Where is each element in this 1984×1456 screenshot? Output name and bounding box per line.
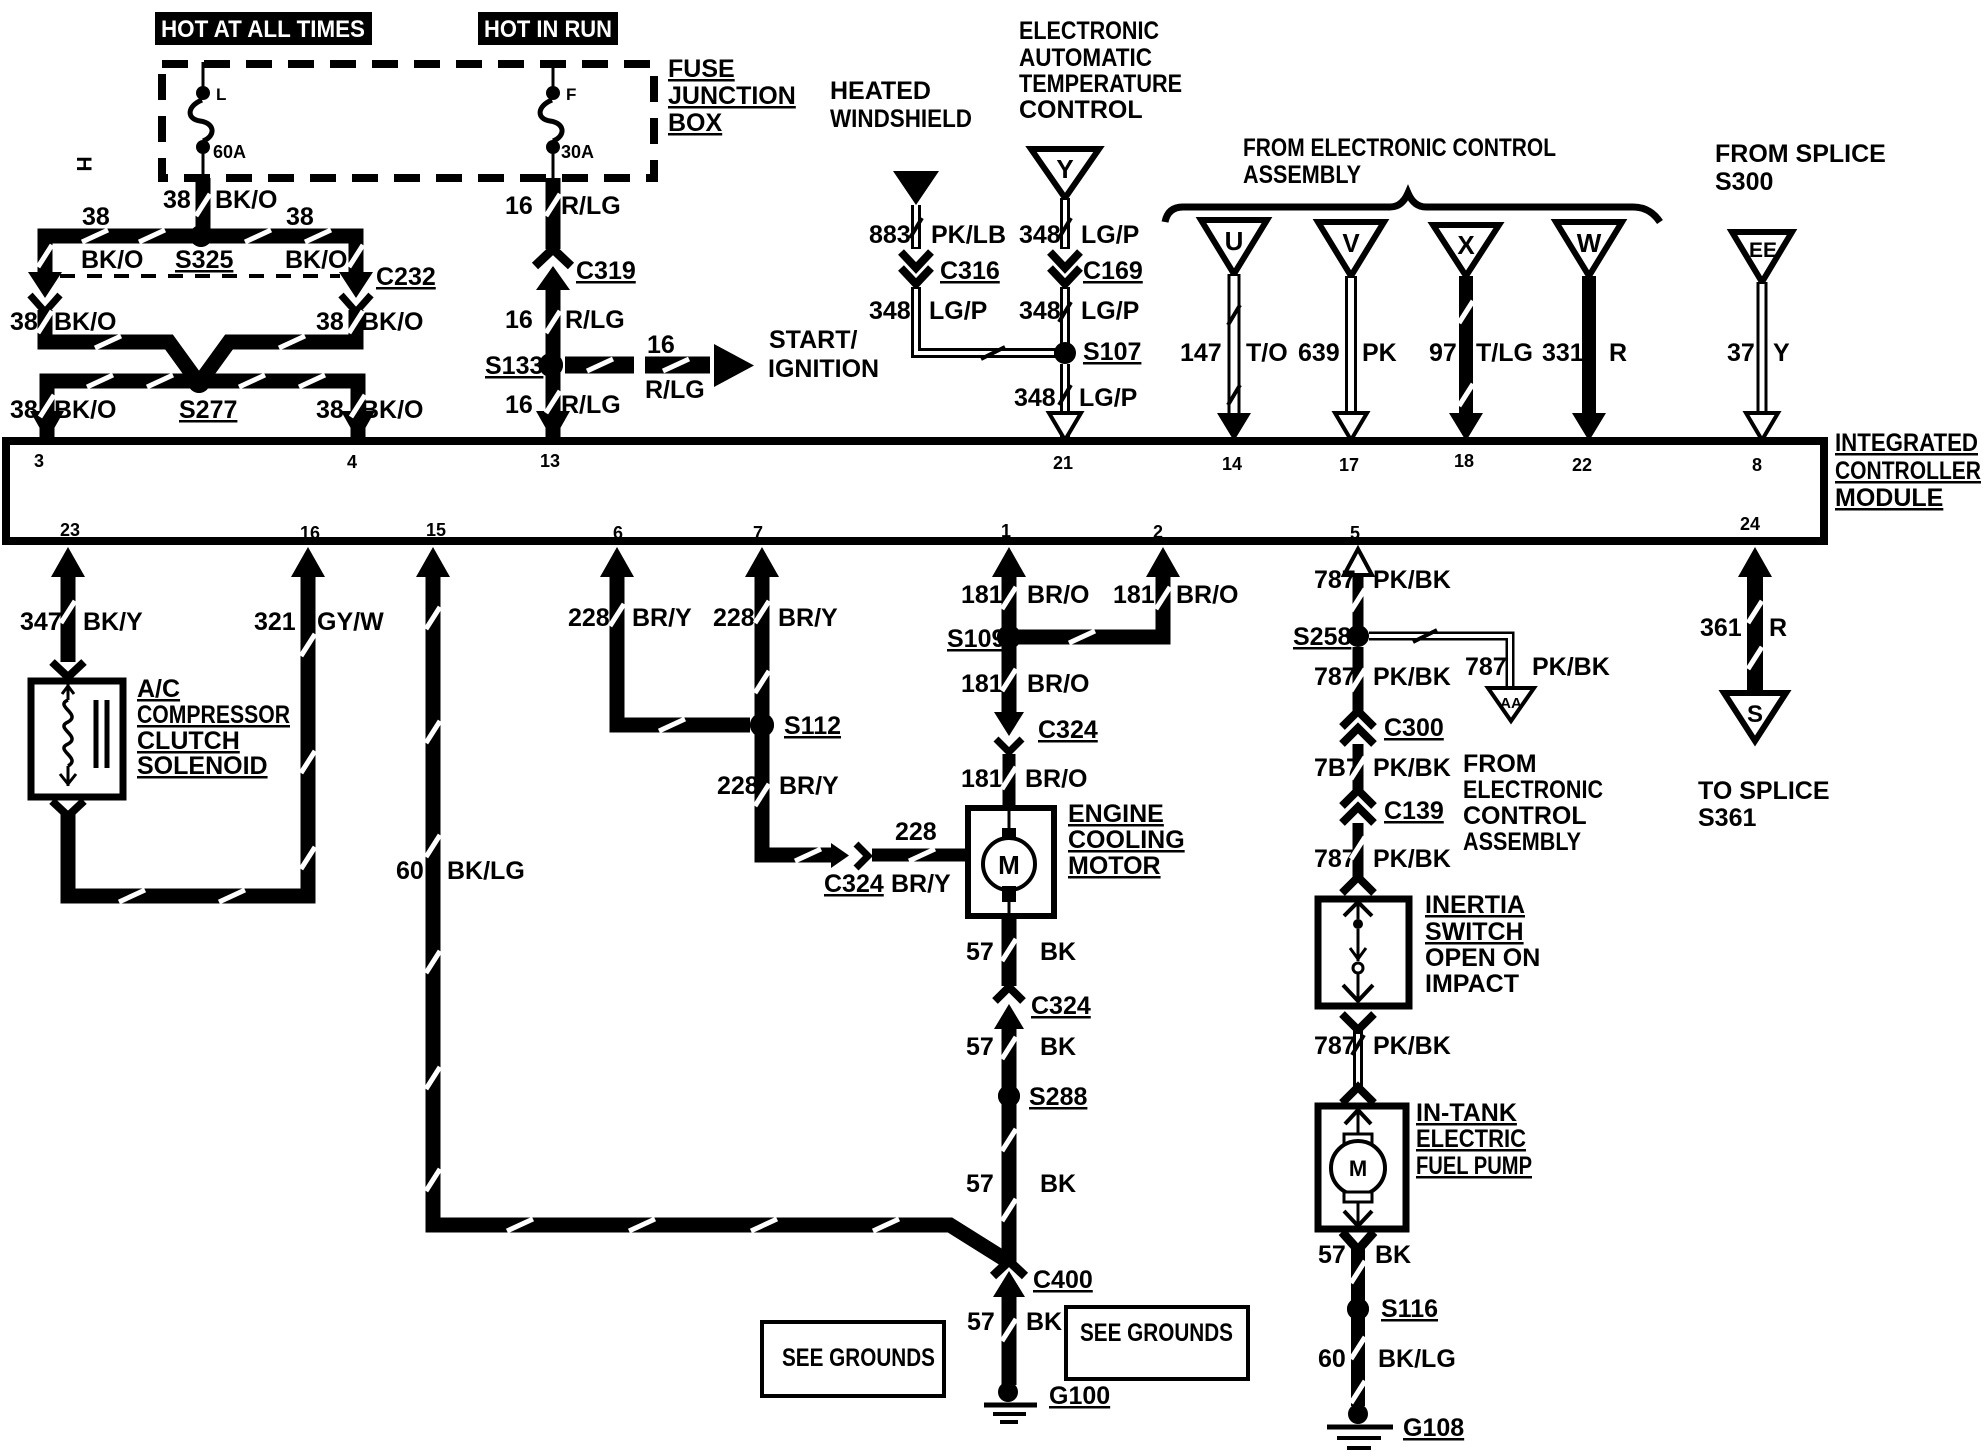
- splice S112 dot: [750, 713, 774, 737]
- label FROM ELECTRONIC CONTROL ASSEMBLY: [1243, 134, 1556, 189]
- label IN-TANK ELECTRIC FUEL PUMP: [1416, 1099, 1532, 1180]
- label 639 PK: [1298, 339, 1397, 367]
- svg-text:INERTIA: INERTIA: [1425, 891, 1525, 919]
- svg-text:883: 883: [869, 221, 911, 249]
- label 38 BK/O: [10, 308, 117, 336]
- svg-text:PK/BK: PK/BK: [1373, 754, 1451, 782]
- label 57 BK: [966, 1033, 1076, 1061]
- svg-text:A/C: A/C: [137, 675, 180, 703]
- svg-text:57: 57: [967, 1308, 995, 1336]
- svg-text:PK: PK: [1362, 339, 1397, 367]
- connector C324 chevron: [995, 987, 1023, 1001]
- svg-text:SEE GROUNDS: SEE GROUNDS: [782, 1344, 935, 1372]
- wire 38 BK/O fuse to S325: [196, 178, 211, 240]
- connector AA triangle: [1488, 688, 1534, 721]
- label 787 PK/BK: [1314, 566, 1451, 594]
- label 181 BR/O: [1113, 581, 1239, 609]
- label 181 BR/O: [961, 765, 1088, 793]
- svg-text:ELECTRONIC: ELECTRONIC: [1019, 17, 1159, 45]
- svg-text:787: 787: [1314, 663, 1356, 691]
- wire 57 BK S288 to C400: [1002, 1096, 1017, 1262]
- svg-text:BK/O: BK/O: [361, 396, 424, 424]
- splice S258: [1293, 623, 1369, 651]
- arrow into pin 8: [1746, 413, 1778, 440]
- svg-text:HOT AT ALL TIMES: HOT AT ALL TIMES: [161, 16, 365, 43]
- wire 57 BK C324 to S288: [1002, 1027, 1017, 1096]
- svg-text:HEATED: HEATED: [830, 77, 931, 105]
- svg-text:348: 348: [869, 297, 911, 325]
- connector C324 chevron: [856, 844, 868, 868]
- svg-text:38: 38: [316, 308, 344, 336]
- svg-text:97: 97: [1429, 339, 1457, 367]
- label 16 R/LG: [505, 391, 621, 419]
- wire 787 PK/BK C300 to C139: [1353, 744, 1364, 790]
- svg-text:16: 16: [647, 331, 675, 359]
- svg-text:PK/BK: PK/BK: [1532, 653, 1610, 681]
- svg-text:181: 181: [961, 581, 1003, 609]
- splice S107 dot: [1055, 343, 1075, 363]
- svg-text:BR/O: BR/O: [1027, 581, 1090, 609]
- svg-text:C400: C400: [1033, 1266, 1093, 1294]
- svg-text:M: M: [1349, 1156, 1367, 1181]
- connector C232 left arrow: [28, 272, 62, 298]
- svg-text:IGNITION: IGNITION: [768, 355, 879, 383]
- splice dots overlay: [188, 225, 1369, 1320]
- svg-text:BR/O: BR/O: [1176, 581, 1239, 609]
- chevron below A/C box: [52, 801, 84, 816]
- svg-text:BK/O: BK/O: [81, 246, 144, 274]
- arrow from pin 16: [291, 547, 325, 577]
- connector C232 dashed line: [60, 274, 340, 278]
- arrow to start/ignition: [714, 344, 754, 387]
- label 787 PK/BK: [1465, 653, 1610, 681]
- svg-text:22: 22: [1572, 455, 1592, 475]
- svg-text:18: 18: [1454, 451, 1474, 471]
- label 181 BR/O: [961, 670, 1090, 698]
- svg-text:IMPACT: IMPACT: [1425, 970, 1519, 998]
- connector C400 arrow up: [993, 1271, 1025, 1297]
- svg-text:FROM ELECTRONIC CONTROL: FROM ELECTRONIC CONTROL: [1243, 134, 1556, 162]
- see grounds box right: [1066, 1307, 1248, 1379]
- connector S triangle to splice S361: [1724, 693, 1786, 741]
- wire 181 BR/O S109 to C324: [1002, 637, 1017, 714]
- svg-text:C324: C324: [824, 870, 884, 898]
- svg-text:16: 16: [505, 306, 533, 334]
- connector C232 right chevron: [341, 295, 371, 312]
- svg-text:348: 348: [1019, 297, 1061, 325]
- svg-text:PK/BK: PK/BK: [1373, 566, 1451, 594]
- label 228 BR/Y: [713, 604, 838, 632]
- svg-text:181: 181: [961, 765, 1003, 793]
- svg-text:PK/BK: PK/BK: [1373, 663, 1451, 691]
- label ELECTRONIC AUTOMATIC TEMPERATURE CONTROL: [1019, 17, 1182, 124]
- svg-text:BK/O: BK/O: [54, 308, 117, 336]
- label ENGINE COOLING MOTOR: [1068, 800, 1185, 880]
- arrow into pin 18: [1449, 413, 1483, 441]
- wire 60 BK/LG pin 15 long run: [433, 575, 1009, 1262]
- label 57 BK: [966, 938, 1076, 966]
- wire A/C solenoid to pin 16: [68, 575, 308, 896]
- svg-text:BOX: BOX: [668, 109, 723, 137]
- svg-text:G100: G100: [1049, 1382, 1110, 1410]
- svg-text:BR/Y: BR/Y: [891, 870, 951, 898]
- svg-text:BR/Y: BR/Y: [632, 604, 692, 632]
- connector C319 arrow: [536, 266, 570, 290]
- svg-text:START/: START/: [769, 326, 857, 354]
- label INTEGRATED CONTROLLER MODULE: [1835, 429, 1981, 512]
- svg-text:FUEL PUMP: FUEL PUMP: [1416, 1152, 1532, 1180]
- svg-text:L: L: [216, 85, 226, 104]
- svg-text:HOT IN RUN: HOT IN RUN: [484, 16, 612, 43]
- svg-text:FROM: FROM: [1463, 750, 1537, 778]
- wire 787 PK/BK S258 to C300: [1353, 647, 1364, 711]
- svg-text:BK/O: BK/O: [285, 246, 348, 274]
- svg-text:S361: S361: [1698, 804, 1756, 832]
- wire 787 PK/BK inertia to fuel pump: [1353, 1030, 1363, 1087]
- svg-text:MODULE: MODULE: [1835, 484, 1943, 512]
- svg-text:LG/P: LG/P: [929, 297, 987, 325]
- svg-text:13: 13: [540, 451, 560, 471]
- svg-text:38: 38: [10, 308, 38, 336]
- label 16 R/LG: [505, 192, 621, 220]
- wire 347 BK/Y pin 23 to A/C solenoid: [61, 575, 76, 662]
- svg-text:S107: S107: [1083, 338, 1141, 366]
- connector Y triangle: [1031, 149, 1099, 198]
- label 883 PK/LB: [869, 221, 1006, 249]
- svg-text:C316: C316: [940, 257, 1000, 285]
- svg-text:C169: C169: [1083, 257, 1143, 285]
- arrow from pin 1: [992, 547, 1026, 577]
- label 57 BK: [967, 1308, 1062, 1336]
- svg-text:PK/LB: PK/LB: [931, 221, 1006, 249]
- svg-text:S277: S277: [179, 396, 237, 424]
- splice S112: [750, 712, 841, 740]
- svg-text:147: 147: [1180, 339, 1222, 367]
- fuse 60A: [190, 62, 246, 178]
- arrow from pin 15: [416, 547, 450, 577]
- svg-text:CONTROL: CONTROL: [1019, 96, 1143, 124]
- svg-text:38: 38: [316, 396, 344, 424]
- svg-text:38: 38: [10, 396, 38, 424]
- svg-text:BK/LG: BK/LG: [1378, 1345, 1456, 1373]
- splice S107: [1054, 338, 1141, 366]
- wire 348 LG/P S107 to pin 21: [1060, 364, 1070, 437]
- svg-text:F: F: [566, 85, 576, 104]
- svg-text:14: 14: [1222, 454, 1242, 474]
- svg-text:PK/BK: PK/BK: [1373, 845, 1451, 873]
- svg-text:R/LG: R/LG: [565, 306, 625, 334]
- splice S133 dot: [539, 353, 563, 377]
- svg-text:S133: S133: [485, 352, 543, 380]
- arrow into pin 13: [536, 411, 570, 441]
- svg-text:BR/Y: BR/Y: [778, 604, 838, 632]
- svg-text:57: 57: [966, 1170, 994, 1198]
- connector C316 chevron: [901, 268, 931, 284]
- connector C169 arrow: [1050, 252, 1080, 268]
- svg-text:4: 4: [347, 452, 357, 472]
- svg-text:BK/O: BK/O: [54, 396, 117, 424]
- arrow from pin 7: [745, 547, 779, 577]
- label 321 GY/W: [254, 608, 384, 636]
- wire 361 R pin 24 to splice S361: [1747, 575, 1763, 693]
- svg-text:FUSE: FUSE: [668, 55, 735, 83]
- connector C300 chevrons: [1342, 711, 1374, 744]
- label 7B7 PK/BK: [1314, 754, 1451, 782]
- svg-text:BK: BK: [1026, 1308, 1062, 1336]
- connector V triangle: [1318, 222, 1384, 276]
- svg-text:EE: EE: [1749, 239, 1777, 262]
- svg-text:S116: S116: [1381, 1295, 1438, 1323]
- connector C169 chevron: [1050, 268, 1080, 284]
- svg-text:S109: S109: [947, 625, 1005, 653]
- arrow into pin 17: [1335, 413, 1367, 440]
- svg-text:COMPRESSOR: COMPRESSOR: [137, 701, 290, 729]
- engine cooling motor box: [968, 808, 1054, 916]
- wire 37 Y: [1757, 282, 1768, 420]
- svg-text:16: 16: [505, 192, 533, 220]
- splice S109: [947, 625, 1021, 653]
- wire 16 R/LG C319 to S133: [546, 288, 561, 365]
- wire 181 BR/O C324 to motor: [1003, 754, 1016, 808]
- Y merge below fuel pump: [1342, 1232, 1374, 1250]
- arrow from pin 23: [51, 547, 85, 577]
- svg-text:M: M: [998, 850, 1020, 880]
- wire 60 BK/LG S116 to G108: [1351, 1309, 1365, 1406]
- arrow into pin 3: [30, 411, 64, 441]
- svg-text:C139: C139: [1384, 797, 1444, 825]
- chevron above A/C box: [52, 662, 84, 677]
- splice S277 dot: [188, 371, 210, 393]
- svg-text:57: 57: [966, 938, 994, 966]
- label 787 PK/BK: [1314, 845, 1451, 873]
- svg-text:BK: BK: [1040, 1170, 1076, 1198]
- svg-text:16: 16: [300, 523, 320, 543]
- svg-text:8: 8: [1752, 455, 1762, 475]
- svg-text:Y: Y: [1773, 339, 1790, 367]
- svg-text:G108: G108: [1403, 1414, 1464, 1442]
- wire 639 PK: [1345, 276, 1357, 420]
- wire 228 BR/Y pin 7 to S112: [755, 575, 770, 725]
- label 348 LG/P: [1014, 384, 1137, 412]
- connector EE triangle: [1732, 232, 1792, 282]
- svg-text:SWITCH: SWITCH: [1425, 918, 1524, 946]
- splice S325: [175, 225, 233, 274]
- svg-text:228: 228: [713, 604, 755, 632]
- label FROM ELECTRONIC CONTROL ASSEMBLY: [1463, 750, 1603, 856]
- svg-text:INTEGRATED: INTEGRATED: [1835, 429, 1978, 457]
- label 60 BK/LG: [1318, 1345, 1456, 1373]
- chevron above inertia box: [1342, 877, 1374, 893]
- svg-text:787: 787: [1314, 566, 1356, 594]
- arrow into pin 22: [1572, 413, 1606, 441]
- svg-text:348: 348: [1014, 384, 1056, 412]
- svg-text:SOLENOID: SOLENOID: [137, 752, 268, 780]
- wire 38 BK/O S325 right branch: [201, 236, 356, 272]
- svg-text:347: 347: [20, 608, 62, 636]
- svg-text:C324: C324: [1038, 716, 1098, 744]
- svg-text:16: 16: [505, 391, 533, 419]
- svg-text:38: 38: [286, 203, 314, 231]
- svg-text:17: 17: [1339, 455, 1359, 475]
- label 787 PK/BK: [1314, 663, 1451, 691]
- svg-text:COOLING: COOLING: [1068, 826, 1185, 854]
- svg-text:181: 181: [1113, 581, 1155, 609]
- svg-text:R/LG: R/LG: [561, 192, 621, 220]
- label 16 R/LG: [505, 306, 625, 334]
- svg-text:3: 3: [34, 451, 44, 471]
- svg-text:60: 60: [1318, 1345, 1346, 1373]
- wire 228 BR/Y S112 to C324: [762, 725, 831, 855]
- svg-text:38: 38: [82, 203, 110, 231]
- svg-text:BK/Y: BK/Y: [83, 608, 143, 636]
- label 348 LG/P: [869, 297, 987, 325]
- svg-text:SEE GROUNDS: SEE GROUNDS: [1080, 1319, 1233, 1347]
- wire 228 BR/Y pin 6 to S112: [617, 575, 750, 725]
- svg-text:FROM SPLICE: FROM SPLICE: [1715, 140, 1886, 168]
- svg-text:OPEN ON: OPEN ON: [1425, 944, 1540, 972]
- splice S288: [998, 1083, 1087, 1111]
- svg-text:X: X: [1457, 230, 1475, 260]
- svg-text:AA: AA: [1500, 695, 1522, 712]
- svg-text:787: 787: [1465, 653, 1507, 681]
- label FUSE JUNCTION BOX: [668, 55, 796, 137]
- svg-text:LG/P: LG/P: [1079, 384, 1137, 412]
- label 348 LG/P: [1019, 297, 1139, 325]
- label C324 BR/Y: [824, 870, 951, 898]
- heated windshield triangle: [893, 171, 939, 205]
- connector W triangle: [1556, 222, 1622, 276]
- wire 348 LG/P C169 to S107: [1060, 287, 1070, 353]
- splice S116 dot: [1347, 1298, 1369, 1320]
- connector U triangle: [1201, 220, 1267, 274]
- svg-text:R/LG: R/LG: [561, 391, 621, 419]
- wire 38 BK/O left to S277: [45, 310, 198, 382]
- arrow from pin 6: [600, 547, 634, 577]
- svg-text:T/LG: T/LG: [1476, 339, 1533, 367]
- svg-text:R: R: [1769, 614, 1787, 642]
- label HEATED WINDSHIELD: [830, 77, 972, 133]
- svg-text:CLUTCH: CLUTCH: [137, 727, 240, 755]
- svg-text:S112: S112: [784, 712, 841, 740]
- svg-text:CONTROLLER: CONTROLLER: [1835, 457, 1981, 485]
- svg-text:S258: S258: [1293, 623, 1351, 651]
- splice S288 dot: [998, 1085, 1020, 1107]
- svg-text:BK/O: BK/O: [215, 186, 278, 214]
- svg-text:1: 1: [1001, 521, 1011, 541]
- svg-text:JUNCTION: JUNCTION: [668, 82, 796, 110]
- svg-text:ENGINE: ENGINE: [1068, 800, 1164, 828]
- svg-text:23: 23: [60, 520, 80, 540]
- svg-text:S: S: [1747, 701, 1763, 728]
- svg-text:787: 787: [1314, 845, 1356, 873]
- wire 38 BK/O S277 bus: [47, 381, 358, 437]
- wire 787 PK/BK S258 to AA: [1369, 636, 1510, 688]
- svg-text:7: 7: [753, 523, 763, 543]
- wire 883 PK/LB: [911, 205, 921, 249]
- integrated controller module U1 box: [6, 441, 1824, 543]
- svg-text:228: 228: [568, 604, 610, 632]
- connector C316 arrow: [901, 252, 931, 268]
- svg-text:BR/O: BR/O: [1025, 765, 1088, 793]
- svg-text:S300: S300: [1715, 168, 1773, 196]
- wire 38 BK/O right to S277: [200, 310, 356, 382]
- A/C compressor clutch solenoid box: [31, 681, 123, 797]
- wire 787 PK/BK C139 to inertia switch: [1353, 823, 1364, 877]
- svg-text:ASSEMBLY: ASSEMBLY: [1463, 828, 1581, 856]
- svg-text:321: 321: [254, 608, 296, 636]
- svg-text:331: 331: [1542, 339, 1584, 367]
- label 147 T/O: [1180, 339, 1288, 367]
- label 37 Y: [1727, 339, 1790, 367]
- splice S325 dot: [190, 225, 212, 247]
- svg-text:15: 15: [426, 520, 446, 540]
- label 787 PK/BK: [1314, 1032, 1451, 1060]
- svg-text:6: 6: [613, 523, 623, 543]
- inertia switch box: [1318, 899, 1409, 1006]
- svg-text:TEMPERATURE: TEMPERATURE: [1019, 70, 1182, 98]
- wire 181 BR/O S109 to pin 2: [1009, 575, 1163, 637]
- connector C319 chevron: [535, 249, 571, 266]
- connector C324 arrow down: [994, 712, 1024, 736]
- arrow from pin 5: [1344, 549, 1372, 575]
- connector C232 left chevron: [30, 295, 60, 312]
- svg-text:AUTOMATIC: AUTOMATIC: [1019, 44, 1152, 72]
- label 228 BR/Y: [568, 604, 692, 632]
- wire 348 LG/P Y to C169: [1060, 198, 1070, 249]
- svg-text:60A: 60A: [213, 142, 246, 162]
- splice S277: [179, 371, 237, 424]
- fuse 30A: [540, 62, 594, 178]
- arrow into pin 4: [341, 411, 375, 441]
- arrow from pin 24: [1738, 547, 1772, 577]
- svg-text:C300: C300: [1384, 714, 1444, 742]
- svg-text:228: 228: [717, 772, 759, 800]
- wire 787 PK/BK pin 5 to S258: [1353, 575, 1364, 636]
- wire 181 BR/O pin 1 to S109: [1002, 575, 1017, 637]
- chevron above fuel pump box: [1342, 1087, 1374, 1103]
- svg-text:30A: 30A: [561, 142, 594, 162]
- svg-text:361: 361: [1700, 614, 1742, 642]
- label 331 R: [1542, 339, 1627, 367]
- ground G108: [1327, 1404, 1464, 1448]
- svg-text:R: R: [1609, 339, 1627, 367]
- wire 57 BK motor to C324: [1002, 916, 1017, 986]
- svg-text:U: U: [1225, 226, 1244, 256]
- connector C139 chevrons: [1342, 790, 1374, 823]
- label 361 R: [1700, 614, 1787, 642]
- label 57 BK: [1318, 1241, 1411, 1269]
- label HOT AT ALL TIMES: [155, 12, 372, 45]
- label 228 BR/Y: [717, 772, 839, 800]
- wire 16 R/LG fuse to C319: [546, 178, 561, 249]
- wire 228 BR/Y C324 to motor: [872, 849, 968, 862]
- svg-text:ELECTRIC: ELECTRIC: [1416, 1125, 1526, 1153]
- svg-text:60: 60: [396, 857, 424, 885]
- label FROM SPLICE S300: [1715, 140, 1886, 196]
- svg-text:787: 787: [1314, 1032, 1356, 1060]
- connector C324 chevron: [996, 739, 1022, 752]
- wire 331 R: [1582, 276, 1596, 420]
- splice S258 dot: [1348, 626, 1368, 646]
- svg-text:R/LG: R/LG: [645, 376, 705, 404]
- svg-text:W: W: [1577, 228, 1602, 258]
- svg-text:PK/BK: PK/BK: [1373, 1032, 1451, 1060]
- svg-text:V: V: [1342, 228, 1360, 258]
- svg-text:BK: BK: [1040, 938, 1076, 966]
- svg-text:BK: BK: [1040, 1033, 1076, 1061]
- svg-text:C319: C319: [576, 257, 636, 285]
- splice S133: [485, 352, 563, 380]
